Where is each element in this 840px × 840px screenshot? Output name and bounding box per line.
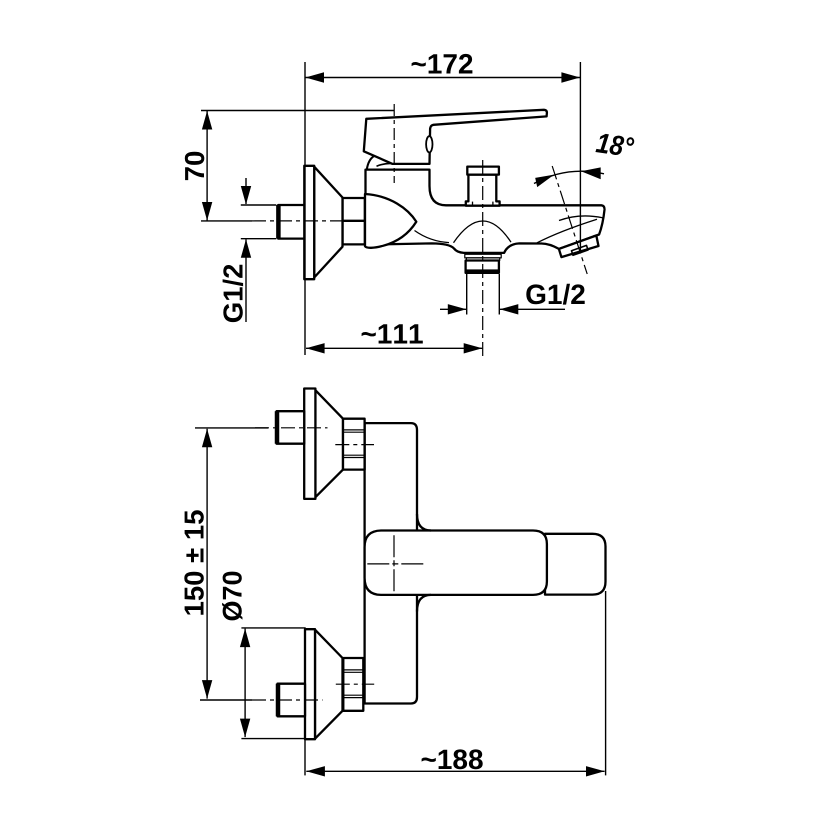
dimension 150±15: vertical line <box>206 429 208 699</box>
bottom connection: escutcheon cone (front) <box>315 630 343 739</box>
thin spout contour upper <box>559 216 603 221</box>
label 18deg <box>595 134 634 155</box>
thin spout contour lower <box>537 219 597 243</box>
aerator inner rect <box>572 245 589 255</box>
bottom connection: base plate <box>305 629 315 739</box>
top connection: escutcheon cone (front) <box>315 390 343 497</box>
nut facet lines <box>343 429 365 431</box>
arrow down of 150±15 <box>202 680 212 699</box>
bottom connection: square axis dash-dot <box>252 699 323 701</box>
top connection: wall square <box>277 411 305 444</box>
arrow right of ~172 <box>561 72 580 82</box>
node: pipe centerline (dash-dot) <box>252 220 348 222</box>
dimension ~111 line <box>306 347 482 349</box>
top connection: square axis dash-dot <box>255 427 328 429</box>
bottom connection: square axis tick <box>200 699 252 701</box>
dimension 70 vertical line <box>206 111 208 221</box>
bottom outlet thread band (black) <box>466 269 499 273</box>
18 deg arc left arrow <box>535 175 554 188</box>
bottom outlet flange ring1 <box>465 254 501 258</box>
label ~188 <box>422 749 483 769</box>
handle tip (rounded rect B) <box>545 534 606 595</box>
thin arch over bottom outlet <box>454 221 512 243</box>
diverter stub neck <box>466 175 500 206</box>
dimension 70: top tick <box>201 110 394 112</box>
arrow down of 70 <box>202 202 212 221</box>
hex nut (side view) <box>343 198 365 244</box>
aerator box (tilted) <box>559 236 599 258</box>
body tube (front view) <box>365 423 417 703</box>
dome arc left of handle <box>367 156 375 170</box>
wire: wall extension line (left, x=305) <box>304 62 306 355</box>
fillet body-handle bottom <box>417 595 431 612</box>
G1/2 bottom dim: right arrow with tail <box>500 308 565 310</box>
bottom outlet stub <box>466 261 499 273</box>
G1/2 bottom dim: left arrow with tail <box>440 308 466 310</box>
thin arch left (inlet dome) <box>415 231 450 243</box>
bottom outlet flange ring2 <box>466 258 499 261</box>
arrow up of 70 <box>202 111 212 130</box>
lever hook ellipse <box>426 136 432 152</box>
tick bottom of pipe <box>241 238 276 240</box>
top connection: nut axis dash-dot <box>335 444 374 446</box>
arrow up of 150±15 <box>202 429 212 448</box>
G1/2 bottom dim: extension lines <box>466 274 468 315</box>
faucet body (top view, thick outline) <box>366 170 605 253</box>
arrow left of ~188 <box>306 766 325 776</box>
escutcheon base plate <box>304 166 314 279</box>
spout axis 18 deg (dash-dot tilted) <box>552 166 587 274</box>
bullet boss on body left <box>365 194 416 248</box>
label 150 ± 15 (rotated) <box>184 510 204 614</box>
dimension ~188 line <box>306 770 604 772</box>
small G1/2 dim (left connector): upper arrow <box>245 178 247 204</box>
handle bar (rounded rect A) <box>365 531 547 595</box>
handle base + lever (thick) <box>364 110 547 164</box>
18 deg arc right arrow <box>581 167 601 179</box>
label ~111 <box>362 324 423 343</box>
dimension 150±15: top tick <box>195 427 268 429</box>
cartridge axis (dash-dot) <box>393 104 395 183</box>
arrow up of Ø70 <box>240 629 250 648</box>
dimension ~172 line <box>305 77 580 79</box>
dimension 70: bottom tick / centerline lead <box>201 220 252 222</box>
top connection: base plate <box>304 389 315 499</box>
tick top of pipe <box>241 204 276 206</box>
label 70 (rotated) <box>185 152 205 180</box>
dimension Ø70: vertical line <box>244 629 246 738</box>
diverter stub inner feet lines <box>472 202 474 206</box>
escutcheon cone (side view) <box>314 167 342 278</box>
pipe end thick edge <box>276 205 281 239</box>
wall pipe nipple <box>278 205 304 239</box>
diverter cap <box>467 167 499 175</box>
arrow down of Ø70 <box>240 719 250 738</box>
dimension Ø70: ticks <box>241 627 305 629</box>
bottom connection: hex nut <box>343 658 363 711</box>
arrow left of ~172 <box>305 72 324 82</box>
nut facet line <box>343 220 365 222</box>
label ~172 <box>412 54 473 74</box>
arrow left of ~111 <box>306 343 325 353</box>
bottom connection: nut axis dash-dot <box>336 683 374 685</box>
dome right shoulder <box>377 163 397 166</box>
fillet body-handle top <box>417 514 431 531</box>
wire: bottom outlet centerline (dash-dot vertical) <box>482 160 484 356</box>
top connection: hex nut <box>343 419 365 470</box>
nut facet lines <box>343 669 363 671</box>
18 deg arc <box>534 171 604 183</box>
bottom connection: wall square <box>278 684 306 717</box>
center cross (cartridge axis front) <box>367 563 424 565</box>
wire: right extension line (x=580.4) <box>579 62 581 254</box>
arrow right of ~111 <box>464 343 483 353</box>
small G1/2 dim: lower arrow <box>245 239 247 322</box>
arrow right of ~188 <box>586 766 605 776</box>
dimension ~188: extension lines <box>304 739 306 776</box>
label G1/2 (bottom) <box>526 284 584 305</box>
label Ø70 (rotated) <box>222 572 242 621</box>
label G1/2 (rotated, left) <box>223 265 244 322</box>
